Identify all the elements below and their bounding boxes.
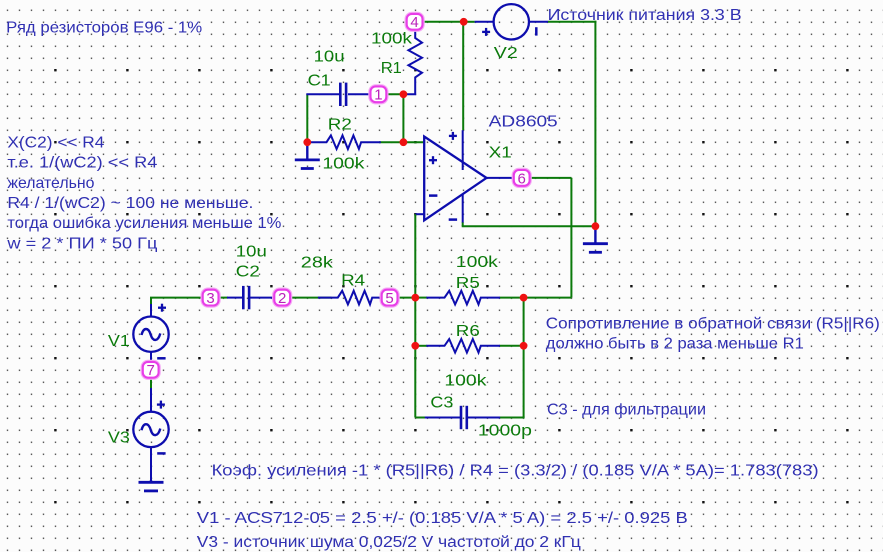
svg-text:R5: R5 — [456, 275, 480, 292]
resistor R4 — [318, 291, 381, 305]
junction top rail / V+ supply — [460, 18, 468, 26]
wire R5 to right junction — [500, 297, 524, 299]
svg-text:10u: 10u — [314, 49, 345, 66]
V2 right lead — [529, 21, 548, 23]
svg-text:w = 2 * ПИ * 50 Гц: w = 2 * ПИ * 50 Гц — [6, 235, 157, 252]
V3 plus marker — [157, 401, 165, 409]
wire op-amp minus input stub — [415, 213, 424, 215]
svg-text:10u: 10u — [236, 243, 267, 260]
wire junction to V2 left lead — [464, 21, 475, 23]
svg-text:должно быть в 2 раза меньше R1: должно быть в 2 раза меньше R1 — [546, 336, 804, 353]
wire node7 to V3 — [150, 378, 152, 389]
svg-text:R1: R1 — [381, 60, 402, 77]
wire V+ supply down to op-amp — [462, 22, 464, 130]
resistor R5 — [426, 291, 500, 305]
capacitor C2 leads — [227, 297, 243, 299]
wire junction to R6 — [415, 345, 427, 347]
wire feedback vertical rail — [414, 214, 416, 417]
voltage source V3 — [133, 412, 168, 447]
op-amp V- marker — [449, 218, 457, 221]
svg-text:6: 6 — [518, 170, 526, 187]
capacitor C1 — [339, 83, 342, 106]
capacitor C3 — [460, 406, 463, 429]
svg-text:тогда ошибка усиления меньше 1: тогда ошибка усиления меньше 1% — [7, 215, 281, 232]
capacitor C3 leads — [425, 417, 461, 419]
node 6 — [514, 170, 530, 187]
svg-text:100k: 100k — [322, 156, 365, 173]
voltage source V1 — [133, 317, 168, 352]
ground below V3 — [150, 480, 152, 482]
wire corner to C3 left — [415, 417, 425, 419]
V2 left lead — [475, 21, 494, 23]
svg-text:V3: V3 — [108, 430, 130, 447]
junction C1 / R2 / ground — [303, 138, 311, 146]
svg-text:C2: C2 — [236, 264, 260, 281]
wire node6 output to corner — [530, 177, 572, 179]
node 1 — [371, 86, 387, 103]
svg-text:Коэф. усиления -1 * (R5||R6) /: Коэф. усиления -1 * (R5||R6) / R4 = (3.3… — [212, 462, 819, 479]
wire R2 to op-amp plus input — [379, 141, 424, 143]
wire output to R5 right junction — [524, 297, 572, 299]
svg-text:Источник питания 3.3 В: Источник питания 3.3 В — [548, 7, 742, 24]
op-amp U X1 triangle — [424, 137, 486, 221]
svg-text:100k: 100k — [371, 30, 413, 47]
op-amp plus input marker — [429, 156, 437, 164]
svg-text:5: 5 — [385, 290, 393, 307]
V3 top lead — [150, 388, 152, 412]
V2 plus marker — [482, 28, 490, 36]
junction R6 right — [520, 342, 528, 350]
wire C1 left down to R2/ground junction — [306, 94, 308, 142]
svg-text:Ряд резисторов E96 - 1%: Ряд резисторов E96 - 1% — [6, 20, 202, 37]
wire junction to R5 — [415, 297, 427, 299]
wire output down rail — [570, 178, 572, 298]
V1 plus marker — [158, 304, 166, 312]
svg-text:V2: V2 — [494, 45, 518, 62]
wire C3 right to corner — [500, 417, 525, 419]
op-amp V- pin — [462, 194, 464, 223]
op-amp minus input marker — [429, 194, 437, 197]
ground at supply rail — [594, 226, 596, 244]
junction node1 / R1 — [400, 90, 408, 98]
wire V2 right rail down to ground junction — [594, 21, 596, 226]
node 3 — [203, 290, 219, 307]
wire V1 top corner down — [150, 298, 152, 305]
wire top rail node4 to junction — [423, 21, 464, 23]
node 7 — [143, 362, 159, 379]
wire V2 right to corner — [548, 21, 596, 23]
junction R2 / plus input net — [400, 138, 408, 146]
svg-text:R2: R2 — [328, 116, 352, 133]
V1 top lead — [150, 304, 152, 317]
node 2 — [274, 290, 290, 307]
op-amp V+ pin — [462, 130, 464, 170]
wire node1 to junction — [387, 93, 404, 95]
junction R6 left — [411, 342, 419, 350]
capacitor C1 leads — [306, 93, 340, 95]
junction supply ground — [592, 222, 600, 230]
svg-text:X(C2) << R4: X(C2) << R4 — [7, 134, 104, 151]
svg-text:желательно: желательно — [7, 175, 94, 192]
V1 bottom lead — [150, 352, 152, 362]
resistor R2 — [307, 135, 381, 149]
node 5 — [382, 290, 398, 307]
svg-text:Сопротивление в обратной связи: Сопротивление в обратной связи (R5||R6) — [546, 315, 880, 332]
svg-text:7: 7 — [147, 362, 155, 379]
resistor R6 — [426, 339, 500, 353]
wire node2 to R4 — [290, 297, 331, 299]
wire junction down to R2 output net — [402, 94, 404, 142]
svg-text:C3 - для фильтрации: C3 - для фильтрации — [547, 402, 706, 419]
svg-text:4: 4 — [410, 14, 418, 31]
wire node3 to C2 — [219, 297, 228, 299]
junction R5 right / output net — [520, 294, 528, 302]
V1 minus marker — [157, 357, 165, 360]
svg-text:1000p: 1000p — [478, 423, 532, 440]
svg-text:100k: 100k — [456, 254, 499, 271]
svg-text:X1: X1 — [489, 145, 512, 162]
wire V- pin to ground rail — [462, 222, 464, 226]
wire ground rail horizontal — [462, 225, 596, 227]
V2 minus marker — [535, 27, 538, 35]
wire R6 to right junction — [500, 345, 524, 347]
svg-text:1: 1 — [374, 87, 382, 104]
node 4 — [407, 14, 423, 31]
svg-text:V3 - источник шума 0,025/2 V ч: V3 - источник шума 0,025/2 V частотой до… — [197, 534, 581, 551]
svg-text:AD8605: AD8605 — [489, 113, 558, 130]
svg-text:R6: R6 — [456, 323, 480, 340]
svg-text:3: 3 — [206, 290, 214, 307]
svg-text:т.е. 1/(wC2) << R4: т.е. 1/(wC2) << R4 — [7, 155, 157, 172]
resistor R1 — [403, 30, 422, 94]
junction node5 / feedback / R5 — [411, 294, 419, 302]
wire right vertical R5/R6/C3 rail — [523, 298, 525, 418]
V3 bottom lead — [150, 447, 152, 482]
svg-text:R4 / 1/(wC2) ~ 100 не меньше.: R4 / 1/(wC2) ~ 100 не меньше. — [7, 195, 253, 212]
svg-text:C1: C1 — [308, 73, 331, 90]
op-amp output pin — [486, 177, 514, 179]
voltage source V2 — [494, 4, 529, 39]
svg-text:28k: 28k — [301, 255, 334, 272]
svg-text:C3: C3 — [430, 395, 453, 412]
capacitor C2 — [242, 286, 245, 309]
svg-text:2: 2 — [278, 290, 286, 307]
V3 minus marker — [157, 452, 165, 455]
svg-text:V1 - ACS712-05 = 2.5 +/- (0.18: V1 - ACS712-05 = 2.5 +/- (0.185 V/A * 5 … — [197, 510, 688, 527]
wire V1 to node3 — [150, 297, 202, 299]
svg-text:100k: 100k — [444, 373, 487, 390]
svg-text:V1: V1 — [108, 333, 130, 350]
op-amp V+ marker — [449, 132, 457, 140]
wire node5 to feedback junction — [398, 297, 416, 299]
ground at R2 input — [306, 142, 308, 160]
svg-text:R4: R4 — [341, 272, 365, 289]
